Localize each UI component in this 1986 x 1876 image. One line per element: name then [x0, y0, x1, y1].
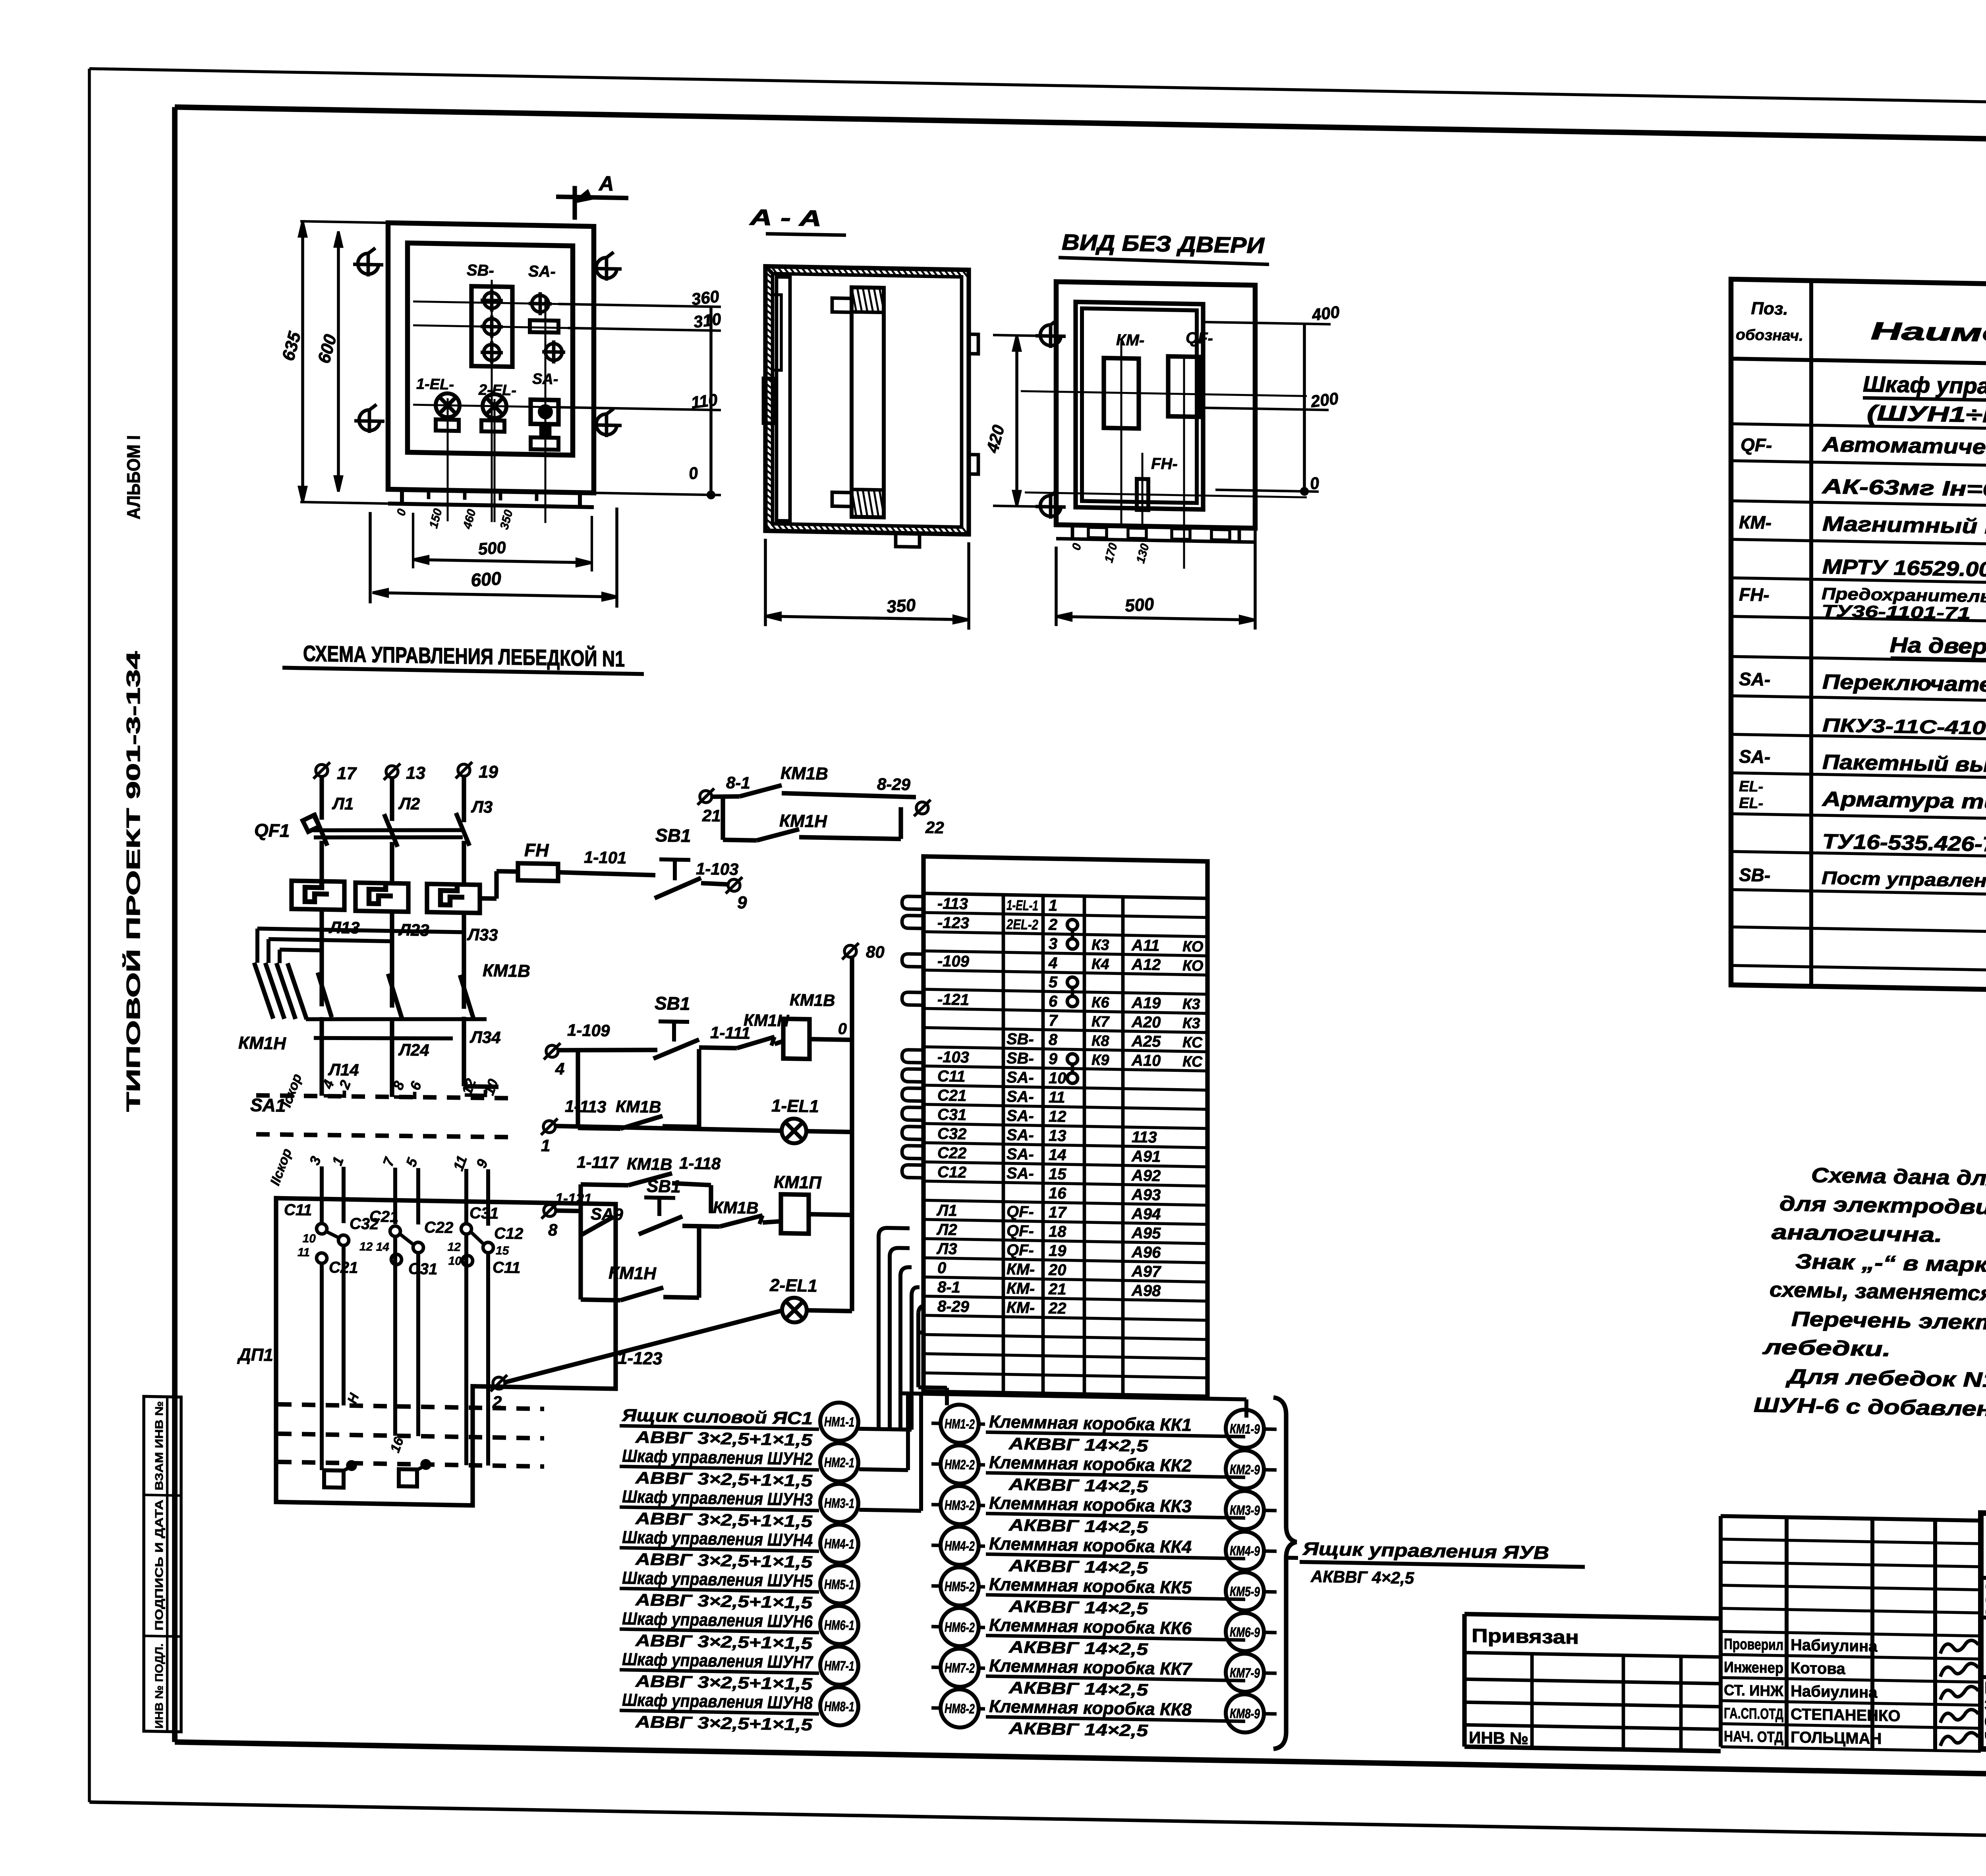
svg-text:12 14: 12 14 — [359, 1240, 389, 1254]
cable НМ2-2: Клеммная коробка КК2 — [931, 1445, 1245, 1498]
jumper links rows 2-3, 5-6, 9-10 — [1067, 919, 1078, 1083]
svg-text:-113: -113 — [937, 895, 968, 913]
svg-text:А11: А11 — [1131, 936, 1159, 954]
svg-text:КМ1-9: КМ1-9 — [1230, 1421, 1260, 1437]
svg-text:19: 19 — [479, 762, 498, 782]
svg-text:9: 9 — [737, 893, 747, 912]
svg-text:QF-: QF- — [1007, 1241, 1034, 1259]
centerlines through door devices — [413, 278, 699, 526]
svg-text:SВ-: SВ- — [1007, 1050, 1034, 1067]
svg-text:SВ1: SВ1 — [655, 825, 691, 846]
cable КМ4-9 to ЯУВ — [1226, 1531, 1277, 1570]
svg-text:КС: КС — [1182, 1053, 1203, 1070]
svg-text:ДП1: ДП1 — [237, 1345, 273, 1365]
svg-text:КМ5-9: КМ5-9 — [1230, 1584, 1260, 1600]
svg-text:К4: К4 — [1092, 956, 1109, 973]
right dim labels 360/310/110/0 — [558, 284, 723, 498]
svg-text:0: 0 — [937, 1259, 946, 1277]
svg-text:ТУ36-1101-71: ТУ36-1101-71 — [1822, 601, 1971, 623]
component table frame — [1731, 279, 1986, 998]
svg-text:1-121: 1-121 — [555, 1190, 592, 1207]
svg-text:7: 7 — [1049, 1012, 1058, 1029]
svg-text:Л2: Л2 — [398, 794, 420, 813]
cable НМ5-1: Шкаф управления ШУН5 — [620, 1561, 858, 1613]
svg-text:КМ1В: КМ1В — [790, 990, 835, 1010]
svg-text:15: 15 — [1049, 1165, 1066, 1183]
component table row lines — [1731, 424, 1986, 978]
sidebar stamp table — [144, 1396, 181, 1732]
svg-text:-121: -121 — [937, 991, 969, 1009]
section A-A title — [749, 205, 846, 235]
svg-text:АКВВГ 14×2,5: АКВВГ 14×2,5 — [1008, 1475, 1148, 1496]
svg-text:2ЕL-2: 2ЕL-2 — [1006, 916, 1038, 933]
svg-text:А97: А97 — [1131, 1262, 1161, 1280]
svg-text:аналогична.: аналогична. — [1772, 1221, 1942, 1247]
terminal 8 — [541, 1202, 581, 1240]
coil КМ1В — [783, 990, 852, 1060]
svg-text:А92: А92 — [1131, 1167, 1161, 1185]
svg-text:350: 350 — [886, 595, 917, 617]
row SA: packet switch — [1739, 746, 1986, 784]
svg-text:Л1: Л1 — [332, 794, 354, 813]
svg-text:КМ8-9: КМ8-9 — [1230, 1706, 1260, 1722]
row SB: button post — [1739, 864, 1986, 899]
title block: binding table — [1464, 1614, 1721, 1751]
svg-text:17: 17 — [337, 764, 357, 784]
svg-text:QF-: QF- — [1741, 434, 1772, 455]
svg-text:ПОДПИСЬ И ДАТА: ПОДПИСЬ И ДАТА — [153, 1500, 165, 1631]
row QF: breaker — [1741, 431, 1986, 506]
svg-text:КМ-: КМ- — [1007, 1299, 1035, 1317]
lamp 1-EL1 — [771, 1096, 852, 1145]
svg-text:АВВГ 3×2,5+1×1,5: АВВГ 3×2,5+1×1,5 — [635, 1712, 813, 1734]
svg-text:ИНВ №: ИНВ № — [1469, 1728, 1528, 1748]
svg-text:1-ЕL-1: 1-ЕL-1 — [1007, 897, 1038, 913]
breaker QF- — [1168, 329, 1213, 417]
svg-text:АКВВГ 14×2,5: АКВВГ 14×2,5 — [1008, 1434, 1148, 1455]
title block: main stamp — [1981, 1513, 1986, 1757]
svg-text:ИНВ № ПОДЛ.: ИНВ № ПОДЛ. — [153, 1643, 165, 1729]
svg-text:КМ1Н: КМ1Н — [238, 1033, 286, 1053]
terminal 1 / wire 1-113 — [541, 1096, 782, 1159]
svg-text:22: 22 — [1048, 1299, 1066, 1317]
svg-text:SВ-: SВ- — [1739, 864, 1770, 885]
svg-text:Л34: Л34 — [469, 1028, 501, 1047]
cable НМ3-1: Шкаф управления ШУН3 — [620, 1480, 858, 1531]
svg-text:С31: С31 — [469, 1204, 498, 1222]
svg-text:SB-: SB- — [467, 262, 494, 280]
svg-text:SА-: SА- — [1007, 1088, 1034, 1106]
svg-text:НМ1-2: НМ1-2 — [945, 1417, 975, 1432]
terminal 17 (L1 supply) — [313, 762, 357, 813]
svg-text:А95: А95 — [1131, 1224, 1161, 1242]
wires SA1 row II to controller — [322, 1166, 488, 1226]
svg-text:КМ4-9: КМ4-9 — [1230, 1543, 1260, 1559]
cable НМ1-2: Клеммная коробка КК1 — [931, 1404, 1245, 1457]
cable НМ2-1: Шкаф управления ШУН2 — [620, 1440, 858, 1491]
fuse FH — [518, 840, 558, 881]
svg-text:АВВГ 3×2,5+1×1,5: АВВГ 3×2,5+1×1,5 — [635, 1509, 813, 1531]
svg-text:2: 2 — [492, 1393, 502, 1411]
svg-text:FН-: FН- — [1151, 455, 1178, 473]
right dims 400/200/0 — [1203, 300, 1341, 495]
svg-text:А12: А12 — [1131, 956, 1161, 974]
section heading: on door — [1890, 633, 1986, 662]
cable НМ1-1: Ящик силовой ЯС1 — [620, 1399, 858, 1450]
svg-text:А: А — [598, 172, 614, 195]
svg-text:К9: К9 — [1092, 1052, 1109, 1069]
front view: door inner outline — [408, 243, 573, 455]
lamp 1-EL — [416, 376, 460, 431]
cable НМ3-2: Клеммная коробка КК3 — [931, 1486, 1245, 1538]
cable КМ3-9 to ЯУВ — [1226, 1491, 1277, 1530]
svg-text:20: 20 — [1048, 1261, 1066, 1279]
controller terminals C21/C22/C31 — [359, 1208, 453, 1278]
hinge bottom-right — [591, 425, 622, 425]
thermal element FR pole 2 — [355, 883, 408, 912]
svg-text:АВВГ 3×2,5+1×1,5: АВВГ 3×2,5+1×1,5 — [635, 1468, 813, 1490]
button post SB- — [467, 262, 512, 367]
svg-text:А96: А96 — [1131, 1243, 1161, 1261]
svg-text:8-29: 8-29 — [937, 1297, 970, 1315]
cable КМ2-9 to ЯУВ — [1226, 1450, 1277, 1489]
svg-text:Л3: Л3 — [471, 797, 493, 816]
svg-text:Л13: Л13 — [328, 918, 360, 937]
cable КМ5-9 to ЯУВ — [1226, 1572, 1277, 1611]
svg-text:SА-: SА- — [1007, 1145, 1034, 1163]
svg-text:ВЗАМ ИНВ №: ВЗАМ ИНВ № — [153, 1401, 165, 1491]
svg-text:500: 500 — [1124, 594, 1155, 616]
svg-text:А - А: А - А — [749, 205, 821, 231]
svg-text:113: 113 — [1132, 1128, 1157, 1146]
svg-text:21: 21 — [702, 806, 721, 825]
svg-text:НМ5-2: НМ5-2 — [945, 1579, 975, 1594]
switch SA- (upper) — [528, 262, 558, 332]
view-without-door title — [1059, 230, 1269, 264]
svg-text:АВВГ 3×2,5+1×1,5: АВВГ 3×2,5+1×1,5 — [635, 1671, 813, 1693]
svg-text:-123: -123 — [937, 914, 969, 932]
component table headers — [1736, 298, 1986, 357]
cable НМ6-1: Шкаф управления ШУН6 — [620, 1602, 858, 1653]
row EL: lamps — [1739, 778, 1986, 861]
coil КМ1П — [774, 1172, 852, 1234]
svg-text:С11: С11 — [493, 1259, 520, 1277]
section A-A cabinet box with hatched walls — [765, 266, 969, 535]
svg-text:НМ4-1: НМ4-1 — [824, 1536, 854, 1552]
svg-text:1-ЕL1: 1-ЕL1 — [771, 1096, 819, 1116]
cable КМ6-9 to ЯУВ — [1226, 1613, 1277, 1652]
svg-text:К3: К3 — [1182, 996, 1200, 1013]
terminal 80 and control bus — [842, 942, 885, 1312]
svg-text:SА-: SА- — [1007, 1069, 1034, 1087]
vertical dim 600 — [314, 231, 342, 492]
terminal 19 (L3 supply) — [456, 762, 498, 816]
cable entry hooks (left edge) — [902, 896, 923, 1178]
contactor КМ- — [1104, 331, 1144, 429]
svg-text:АКВВГ 14×2,5: АКВВГ 14×2,5 — [1008, 1597, 1148, 1618]
svg-text:К3: К3 — [1182, 1015, 1200, 1032]
svg-text:ЕL-: ЕL- — [1739, 778, 1763, 795]
cable НМ8-1: Шкаф управления ШУН8 — [620, 1683, 858, 1735]
svg-text:10: 10 — [303, 1232, 316, 1245]
svg-text:11: 11 — [298, 1246, 310, 1259]
svg-text:SА-: SА- — [1007, 1107, 1034, 1125]
svg-text:-103: -103 — [937, 1048, 969, 1066]
terminal 4 / wire 1-109 — [544, 1020, 657, 1080]
svg-text:310: 310 — [692, 309, 723, 331]
hinge top-left — [353, 264, 383, 265]
svg-text:С22: С22 — [937, 1144, 966, 1162]
svg-text:КМ2-9: КМ2-9 — [1230, 1462, 1260, 1477]
A-A dim 350 — [765, 539, 969, 630]
svg-text:9: 9 — [1049, 1050, 1058, 1067]
svg-text:КМ1П: КМ1П — [774, 1172, 822, 1193]
cabinet outline (no door) — [1056, 282, 1255, 528]
cable НМ7-1: Шкаф управления ШУН7 — [620, 1643, 858, 1694]
svg-text:6: 6 — [1049, 993, 1058, 1010]
svg-text:КМ1В: КМ1В — [483, 961, 530, 981]
svg-text:КМ1В: КМ1В — [627, 1154, 672, 1174]
svg-text:ТИПОВОЙ ПРОЕКТ 901-3-134: ТИПОВОЙ ПРОЕКТ 901-3-134 — [122, 651, 144, 1112]
svg-text:FН: FН — [524, 840, 549, 861]
svg-text:ТУ16-535.426-70: ТУ16-535.426-70 — [1822, 830, 1986, 856]
svg-text:С11: С11 — [284, 1201, 312, 1219]
svg-text:Набиулина: Набиулина — [1791, 1636, 1878, 1655]
svg-text:Л1: Л1 — [936, 1202, 957, 1220]
controller contact rows (dashed) — [278, 1404, 544, 1467]
svg-text:13: 13 — [1049, 1127, 1066, 1145]
vertical dim 635 — [278, 221, 391, 504]
svg-text:С22: С22 — [424, 1219, 453, 1237]
svg-text:КМ6-9: КМ6-9 — [1230, 1625, 1260, 1640]
svg-text:А94: А94 — [1131, 1205, 1161, 1223]
svg-text:К7: К7 — [1092, 1013, 1110, 1031]
svg-text:А19: А19 — [1131, 994, 1161, 1012]
switch SA- (middle screw) — [545, 344, 562, 361]
svg-text:2-ЕL1: 2-ЕL1 — [769, 1276, 817, 1296]
svg-text:600: 600 — [470, 568, 502, 591]
circuit breaker QF1 — [254, 809, 469, 884]
controller terminals C11/C32/C21 — [284, 1201, 379, 1277]
title block: signatures table — [1721, 1516, 1981, 1751]
svg-text:НМ8-2: НМ8-2 — [945, 1701, 975, 1716]
notes paragraph — [1754, 1163, 1986, 1428]
svg-text:2: 2 — [1048, 916, 1057, 933]
svg-text:Инженер: Инженер — [1724, 1659, 1783, 1677]
section heading ШУН-6 — [1863, 371, 1986, 430]
svg-text:SВ-: SВ- — [1007, 1030, 1034, 1048]
cable НМ8-2: Клеммная коробка КК8 — [931, 1689, 1245, 1742]
svg-text:22: 22 — [925, 818, 944, 837]
svg-text:1: 1 — [541, 1136, 550, 1155]
svg-text:14: 14 — [1049, 1146, 1066, 1164]
svg-text:ГА.СП.ОТД: ГА.СП.ОТД — [1724, 1705, 1783, 1723]
svg-text:500: 500 — [477, 538, 507, 558]
svg-text:ВИД БЕЗ ДВЕРИ: ВИД БЕЗ ДВЕРИ — [1062, 230, 1265, 258]
selector SA1 row I — [250, 1071, 512, 1120]
svg-text:110: 110 — [690, 390, 719, 412]
controller box ДП1 — [237, 1197, 616, 1508]
wire: supply drops — [322, 774, 464, 822]
svg-text:С21: С21 — [369, 1208, 398, 1226]
svg-text:НМ4-2: НМ4-2 — [945, 1538, 975, 1554]
svg-text:16: 16 — [1049, 1185, 1066, 1202]
svg-text:К3: К3 — [1092, 937, 1109, 954]
svg-text:1-109: 1-109 — [567, 1021, 610, 1040]
hinge left bottom — [1036, 507, 1066, 507]
svg-text:КМ7-9: КМ7-9 — [1230, 1665, 1260, 1681]
svg-text:АЛЬБОМ I: АЛЬБОМ I — [123, 435, 144, 519]
svg-text:8: 8 — [1049, 1031, 1058, 1048]
contact КМ1В (aux top) — [712, 762, 916, 800]
cable КМ1-9 to ЯУВ — [1226, 1409, 1277, 1448]
svg-text:КО: КО — [1182, 957, 1203, 975]
terminal strip table frame — [923, 857, 1207, 1397]
svg-text:-109: -109 — [937, 952, 970, 970]
svg-text:А20: А20 — [1131, 1013, 1161, 1031]
risers to terminal rows Л1..0 — [858, 1228, 920, 1430]
svg-text:4: 4 — [1048, 954, 1057, 972]
selector SA1 row II — [256, 1133, 512, 1191]
svg-text:обознач.: обознач. — [1736, 326, 1803, 344]
cable НМ4-1: Шкаф управления ШУН4 — [620, 1521, 858, 1572]
svg-text:1-103: 1-103 — [696, 859, 738, 879]
row FH: fuse — [1739, 583, 1986, 627]
wire 1-101 — [558, 847, 655, 875]
svg-text:200: 200 — [1309, 389, 1340, 411]
svg-text:Л24: Л24 — [398, 1040, 429, 1059]
svg-text:А91: А91 — [1131, 1148, 1161, 1166]
contact КМ1В interlock (rev) — [713, 1198, 781, 1228]
svg-text:SА-: SА- — [1007, 1164, 1034, 1182]
contact group КМ1В (forward) — [318, 958, 530, 1021]
svg-text:360: 360 — [690, 287, 721, 309]
svg-text:10: 10 — [1049, 1069, 1066, 1087]
wire to control fuse — [480, 871, 518, 899]
svg-text:АВВГ 3×2,5+1×1,5: АВВГ 3×2,5+1×1,5 — [635, 1428, 813, 1449]
svg-text:5: 5 — [1049, 973, 1058, 991]
holding contact КМ1В branch — [578, 1047, 699, 1130]
terminal table row lines — [923, 913, 1207, 1378]
branch 1-117 КМ1В 1-118 — [577, 1152, 721, 1213]
svg-text:НМ2-2: НМ2-2 — [945, 1457, 975, 1473]
switch SA9 / button SB1 (start rev) — [555, 1175, 720, 1237]
svg-text:1-117: 1-117 — [577, 1152, 619, 1172]
terminal 21 / wire 8-1 — [697, 773, 750, 826]
svg-text:FН-: FН- — [1739, 584, 1770, 605]
svg-text:0: 0 — [838, 1020, 847, 1038]
svg-text:1-EL-: 1-EL- — [416, 376, 454, 393]
wire 1-103 / terminal 9 — [696, 859, 747, 913]
terminal 22 / wire 8-29 — [877, 775, 944, 837]
svg-text:КМ-: КМ- — [1007, 1280, 1035, 1297]
bottom dim 500 — [1056, 525, 1255, 629]
button SB1 (stop, top) — [655, 825, 701, 899]
svg-text:1-101: 1-101 — [584, 848, 626, 867]
svg-text:2-EL-: 2-EL- — [478, 382, 516, 399]
svg-text:15: 15 — [496, 1244, 510, 1258]
svg-text:8-1: 8-1 — [726, 773, 750, 792]
svg-text:8-29: 8-29 — [877, 775, 911, 794]
svg-text:КМ-: КМ- — [1739, 511, 1772, 533]
svg-text:С32: С32 — [937, 1125, 966, 1143]
fuse FH- — [1137, 455, 1178, 511]
svg-text:QF-: QF- — [1186, 329, 1213, 347]
riser bracket rows 8-1/8-29 — [918, 1305, 947, 1405]
svg-text:ГОЛЬЦМАН: ГОЛЬЦМАН — [1791, 1729, 1882, 1748]
section mark A — [556, 171, 628, 220]
terminal table entries — [936, 895, 1203, 1320]
A-A base foot — [896, 533, 920, 547]
svg-text:SА-: SА- — [1739, 746, 1770, 767]
svg-text:10: 10 — [448, 1255, 462, 1268]
svg-text:13: 13 — [406, 763, 425, 783]
svg-text:НМ3-1: НМ3-1 — [824, 1496, 854, 1511]
svg-text:SА-: SА- — [528, 262, 556, 280]
svg-text:3: 3 — [1049, 935, 1057, 953]
svg-text:4: 4 — [555, 1059, 564, 1078]
cable link line to KK boxes — [859, 1393, 1246, 1517]
svg-text:АК-63мг Iн=6,3А: АК-63мг Iн=6,3А — [1821, 475, 1986, 502]
svg-text:НМ7-1: НМ7-1 — [824, 1658, 854, 1674]
svg-text:400: 400 — [1310, 302, 1341, 324]
A-A side handles — [969, 334, 978, 354]
svg-text:КМ1Н: КМ1Н — [609, 1263, 657, 1283]
cable КМ8-9 to ЯУВ — [1226, 1694, 1277, 1733]
svg-text:Л2: Л2 — [936, 1221, 957, 1239]
svg-text:лебедки.: лебедки. — [1762, 1336, 1891, 1361]
svg-text:Л33: Л33 — [467, 925, 498, 944]
gathering brace — [1273, 1397, 1296, 1749]
svg-text:Набиулина: Набиулина — [1791, 1682, 1878, 1701]
svg-text:80: 80 — [866, 942, 885, 961]
row КМ: starter — [1739, 511, 1986, 586]
svg-text:8-1: 8-1 — [937, 1278, 960, 1296]
svg-text:КМ3-9: КМ3-9 — [1230, 1503, 1260, 1518]
front view: plinth base — [388, 489, 594, 507]
svg-text:Проверил: Проверил — [1724, 1636, 1783, 1654]
cable НМ5-2: Клеммная коробка КК5 — [931, 1567, 1245, 1620]
svg-text:А98: А98 — [1131, 1282, 1161, 1300]
svg-text:НМ7-2: НМ7-2 — [945, 1660, 975, 1676]
svg-text:18: 18 — [1049, 1223, 1066, 1241]
hinge bottom-left — [354, 421, 384, 421]
hinge top-right — [591, 268, 622, 269]
base with feet — [1056, 525, 1255, 542]
svg-text:КМ1В: КМ1В — [780, 763, 828, 784]
svg-text:17: 17 — [1049, 1204, 1067, 1222]
svg-text:АВВГ 3×2,5+1×1,5: АВВГ 3×2,5+1×1,5 — [635, 1590, 813, 1612]
svg-text:СТ. ИНЖ: СТ. ИНЖ — [1724, 1682, 1784, 1700]
svg-text:СТЕПАНЕНКО: СТЕПАНЕНКО — [1791, 1706, 1901, 1725]
svg-text:НМ3-2: НМ3-2 — [945, 1498, 975, 1513]
svg-text:АКВВГ 14×2,5: АКВВГ 14×2,5 — [1008, 1515, 1148, 1536]
svg-text:11: 11 — [1049, 1089, 1065, 1106]
svg-text:QF-: QF- — [1007, 1203, 1034, 1221]
svg-text:SА-: SА- — [1007, 1126, 1034, 1144]
svg-text:НМ2-1: НМ2-1 — [824, 1455, 854, 1471]
svg-text:КС: КС — [1182, 1034, 1203, 1051]
label: control box ЯУВ — [1287, 1538, 1585, 1590]
svg-text:Ящик управления ЯУВ: Ящик управления ЯУВ — [1302, 1538, 1549, 1563]
svg-text:КМ1В: КМ1В — [616, 1097, 661, 1116]
svg-text:1-118: 1-118 — [679, 1154, 721, 1173]
lamp 2-EL — [478, 382, 516, 432]
svg-text:1-113: 1-113 — [565, 1097, 606, 1116]
thermal element FR pole 3 — [427, 884, 480, 913]
svg-text:SВ1: SВ1 — [647, 1176, 681, 1196]
contact group КМ1Н (reversing) — [238, 962, 307, 1054]
